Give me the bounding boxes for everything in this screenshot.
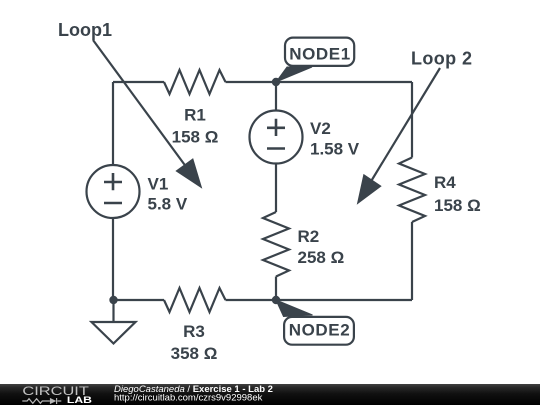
node NODE1 box	[285, 38, 354, 66]
svg-text:R3: R3	[183, 322, 205, 341]
node NODE1 callout pointer	[276, 67, 312, 82]
annotation Loop1 arrow line	[93, 40, 187, 168]
svg-text:5.8 V: 5.8 V	[148, 195, 188, 214]
wire V1 negative terminal down to ground node	[112, 218, 114, 300]
svg-text:R4: R4	[434, 173, 456, 192]
label V2 value	[310, 119, 360, 159]
wire top-left corner to R1 left lead	[113, 81, 164, 83]
wire R2 pin 2 down to node NODE2	[275, 277, 277, 301]
junction node dot at ground	[109, 296, 117, 304]
wire ground node to ground symbol	[112, 300, 114, 322]
wire right branch from top corner down to R4 pin 1	[411, 82, 413, 158]
resistor R2	[263, 212, 289, 277]
svg-text:258 Ω: 258 Ω	[298, 248, 345, 267]
label R4 value	[434, 173, 481, 215]
svg-text:http://circuitlab.com/czrs9v92: http://circuitlab.com/czrs9v92998ek	[114, 393, 263, 404]
wire R4 pin 2 down to bottom-right corner	[411, 222, 413, 300]
node NODE2 box	[284, 317, 354, 345]
svg-text:R2: R2	[298, 227, 320, 246]
junction node dot at NODE2	[272, 296, 280, 304]
annotation Loop1 arrowhead	[177, 159, 201, 187]
svg-text:158 Ω: 158 Ω	[434, 196, 481, 215]
wire bottom-left node to R3 left lead	[113, 299, 164, 301]
svg-text:LAB: LAB	[67, 395, 92, 405]
junction node dot at NODE1	[272, 78, 280, 86]
wire R3 right lead to node NODE2 and on to bottom-right corner	[226, 299, 413, 301]
voltage source V2 circle	[250, 111, 303, 164]
svg-text:Loop1: Loop1	[58, 20, 112, 40]
wire left branch from top corner down to V1 positive terminal	[112, 82, 114, 165]
node NODE2 callout pointer	[276, 300, 313, 317]
footer bar	[0, 384, 540, 405]
svg-text:R1: R1	[184, 106, 206, 125]
V1 plus sign	[104, 173, 122, 190]
svg-text:NODE2: NODE2	[289, 321, 351, 340]
V2 minus sign	[267, 147, 285, 150]
svg-text:358 Ω: 358 Ω	[171, 344, 218, 363]
label R1 value	[172, 106, 219, 147]
ground	[92, 322, 136, 344]
label R2 value	[298, 227, 345, 267]
svg-text:158 Ω: 158 Ω	[172, 127, 219, 146]
svg-text:Loop 2: Loop 2	[411, 49, 472, 69]
V2 plus sign	[267, 119, 285, 136]
resistor R4	[399, 158, 425, 223]
V1 minus sign	[104, 202, 122, 205]
svg-text:1.58 V: 1.58 V	[310, 140, 360, 159]
wire node NODE1 down to V2 positive terminal	[275, 82, 277, 111]
label R3 value	[171, 322, 218, 363]
voltage source V1 circle	[87, 165, 140, 218]
annotation Loop 2 arrowhead	[358, 175, 381, 203]
footer logo resistor-diode symbol	[22, 398, 61, 404]
annotation Loop 2 arrow line	[370, 68, 440, 183]
label V1 value	[148, 175, 188, 214]
resistor R1	[164, 70, 226, 94]
wire R1 right lead to node NODE1 and on to top-right corner	[226, 81, 413, 83]
svg-text:V2: V2	[310, 119, 331, 138]
svg-text:V1: V1	[148, 175, 169, 194]
wire V2 negative terminal down to R2 pin 1	[275, 164, 277, 213]
svg-text:NODE1: NODE1	[289, 45, 351, 64]
resistor R3	[164, 288, 226, 312]
